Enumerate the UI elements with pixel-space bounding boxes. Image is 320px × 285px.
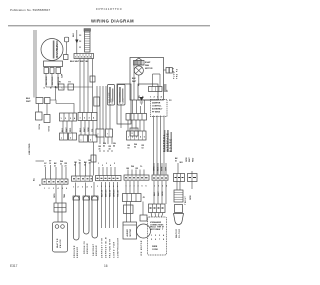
svg-text:1: 1 bbox=[98, 163, 99, 165]
svg-text:c: c bbox=[81, 140, 82, 142]
svg-text:FRZ P4: FRZ P4 bbox=[176, 68, 179, 79]
wires from K area down bbox=[99, 86, 101, 129]
svg-text:2: 2 bbox=[132, 137, 133, 139]
sensor tube 3 bbox=[92, 196, 98, 238]
wire from S7 bbox=[191, 182, 193, 190]
svg-text:MOTOR: MOTOR bbox=[145, 68, 153, 70]
wire with inline box left of S3 bbox=[93, 142, 95, 176]
overload protector parts bbox=[44, 68, 49, 74]
wire bbox=[38, 104, 40, 113]
svg-text:RED-16: RED-16 bbox=[110, 189, 112, 197]
wires below H bbox=[127, 120, 129, 131]
wire bbox=[45, 74, 47, 88]
svg-text:WATER: WATER bbox=[56, 238, 59, 248]
sensor tube 1 bbox=[74, 196, 80, 240]
wire bbox=[87, 59, 89, 113]
svg-text:F2: F2 bbox=[69, 82, 71, 84]
svg-text:DEFROST: DEFROST bbox=[93, 243, 95, 256]
inline connector on auger wires bbox=[124, 205, 134, 214]
svg-text:GRN: GRN bbox=[186, 157, 188, 162]
svg-text:DEFROST BI-M: DEFROST BI-M bbox=[106, 237, 108, 258]
svg-text:12: 12 bbox=[49, 163, 51, 165]
svg-text:COND FAN: COND FAN bbox=[113, 241, 116, 258]
svg-text:CAP: CAP bbox=[61, 73, 64, 78]
main board strip S3 bbox=[96, 176, 122, 181]
svg-text:CONTROL: CONTROL bbox=[152, 106, 162, 108]
compressor motor bbox=[41, 39, 63, 61]
svg-text:52: 52 bbox=[134, 147, 136, 149]
svg-text:EVAP: EVAP bbox=[145, 61, 151, 64]
svg-text:E317: E317 bbox=[10, 264, 18, 268]
small box bbox=[175, 205, 183, 213]
short line segment bbox=[36, 160, 45, 162]
water filter cup bbox=[174, 214, 184, 225]
connector S7 bbox=[188, 174, 198, 182]
svg-text:FRESH FD: FRESH FD bbox=[84, 241, 86, 254]
svg-text:2: 2 bbox=[78, 187, 79, 189]
svg-text:6: 6 bbox=[146, 186, 147, 188]
svg-text:FAN: FAN bbox=[145, 64, 150, 67]
svg-text:3: 3 bbox=[106, 163, 107, 165]
icemaker connector bbox=[149, 204, 166, 213]
short wires above strips bbox=[46, 137, 193, 179]
svg-text:WHT: WHT bbox=[158, 191, 160, 196]
svg-text:4: 4 bbox=[110, 164, 111, 167]
svg-text:TWIST: TWIST bbox=[185, 196, 187, 205]
svg-text:F1: F1 bbox=[59, 82, 61, 84]
auger motor bbox=[123, 222, 137, 239]
svg-text:SENSOR: SENSOR bbox=[96, 245, 98, 256]
evaporator fan motor bbox=[134, 61, 145, 66]
wire bbox=[51, 74, 53, 88]
svg-text:PLUG: PLUG bbox=[38, 124, 40, 130]
svg-text:16: 16 bbox=[104, 264, 108, 268]
svg-text:43: 43 bbox=[109, 148, 111, 151]
water valve bbox=[53, 222, 68, 252]
svg-text:g: g bbox=[132, 133, 133, 135]
svg-text:5: 5 bbox=[142, 186, 143, 188]
connector K2 bbox=[118, 85, 126, 106]
pin digits inner strip bbox=[150, 96, 163, 99]
svg-text:WHT: WHT bbox=[189, 157, 191, 162]
enclosure box around K2 bbox=[117, 84, 131, 124]
svg-text:53: 53 bbox=[142, 148, 144, 150]
wires below T2 bbox=[126, 202, 128, 223]
svg-text:5: 5 bbox=[144, 137, 145, 139]
wire: left power line (double) bbox=[33, 30, 35, 98]
svg-text:SENSOR: SENSOR bbox=[77, 246, 79, 258]
pin strip H bbox=[126, 114, 147, 121]
svg-text:5: 5 bbox=[91, 187, 92, 189]
pin numbers H2 bbox=[128, 136, 145, 139]
svg-text:ASSEMBLY: ASSEMBLY bbox=[152, 108, 163, 111]
svg-text:SENSOR: SENSOR bbox=[87, 243, 89, 254]
pin numbers under S1 bbox=[44, 187, 67, 190]
svg-text:51: 51 bbox=[128, 148, 130, 150]
svg-text:Publication No. 5995588847: Publication No. 5995588847 bbox=[10, 8, 51, 12]
svg-text:FREEZER: FREEZER bbox=[74, 245, 76, 258]
main board strip S1 bbox=[42, 179, 68, 184]
pin numbers J2 bbox=[75, 56, 92, 59]
ice maker box bbox=[148, 217, 167, 255]
svg-text:61: 61 bbox=[175, 161, 177, 163]
svg-text:4: 4 bbox=[58, 187, 59, 190]
wires from S3 down with labels bbox=[102, 182, 118, 228]
svg-text:MOTOR: MOTOR bbox=[130, 229, 132, 237]
wires from box F bottom bbox=[132, 100, 134, 114]
connector J2 horizontal bbox=[74, 54, 94, 59]
svg-text:DAMPER: DAMPER bbox=[152, 102, 161, 105]
svg-text:GRN: GRN bbox=[190, 195, 192, 200]
start device bbox=[64, 55, 69, 60]
svg-text:44: 44 bbox=[113, 145, 115, 148]
svg-text:3: 3 bbox=[82, 187, 83, 189]
svg-text:INTERFACE: INTERFACE bbox=[166, 133, 169, 152]
wires from S1 down bbox=[55, 185, 57, 203]
water valve connector bbox=[54, 203, 66, 212]
auger strip T2 bbox=[123, 194, 142, 202]
svg-text:42: 42 bbox=[103, 145, 105, 148]
svg-text:FILTER: FILTER bbox=[179, 229, 181, 238]
svg-text:WHT-16: WHT-16 bbox=[106, 189, 108, 197]
fuse wire with arrow bbox=[76, 30, 78, 54]
svg-text:WIRING DIAGRAM: WIRING DIAGRAM bbox=[91, 19, 134, 24]
wire inside box bbox=[138, 75, 140, 86]
wires from S2 to sensors bbox=[75, 183, 77, 197]
wire: left boxes to jog bbox=[50, 100, 56, 104]
main board strip S5 bbox=[152, 175, 168, 180]
header rule bbox=[8, 25, 210, 27]
svg-text:SW: SW bbox=[157, 229, 160, 231]
wires from S6 down bbox=[176, 182, 178, 191]
svg-text:RED: RED bbox=[193, 157, 195, 162]
wire: J2 down bbox=[79, 59, 81, 113]
wire cap to start device bbox=[65, 42, 67, 55]
svg-text:VALVE: VALVE bbox=[59, 239, 62, 248]
svg-text:3: 3 bbox=[53, 188, 54, 190]
run capacitor bbox=[65, 37, 69, 42]
wires from S5 to icemaker connector bbox=[153, 181, 155, 204]
inline fuse boxes on bus bbox=[59, 84, 65, 90]
svg-text:2: 2 bbox=[102, 165, 103, 167]
plug comb right of strip bbox=[164, 85, 167, 91]
svg-text:PLUG: PLUG bbox=[174, 71, 176, 79]
compressor relay box bbox=[44, 61, 63, 67]
wire color labels above board strips bbox=[44, 143, 183, 170]
connector K1 bbox=[108, 85, 115, 106]
pin numbers P2 bbox=[80, 117, 96, 120]
junction dot bbox=[55, 86, 57, 88]
svg-text:COMPRESSOR: COMPRESSOR bbox=[55, 41, 59, 59]
wire: jog 2 bbox=[56, 104, 74, 114]
svg-text:AUGER: AUGER bbox=[126, 229, 129, 237]
left mid components bbox=[36, 112, 43, 120]
svg-text:ORG: ORG bbox=[54, 193, 56, 198]
svg-text:1: 1 bbox=[128, 137, 129, 139]
hatched connector bbox=[174, 190, 183, 202]
svg-text:GRN-16: GRN-16 bbox=[114, 189, 116, 197]
svg-text:COMPRESSOR: COMPRESSOR bbox=[118, 238, 120, 258]
pin numbers under S2-S5 bbox=[73, 185, 167, 189]
wires from damper box bbox=[153, 116, 155, 175]
terminal box markers bbox=[61, 133, 133, 142]
mid pin strip P2 bbox=[78, 113, 97, 121]
pin numbers P1 bbox=[61, 117, 77, 120]
fresh food section box bbox=[130, 58, 164, 101]
svg-text:DEFROST HTR: DEFROST HTR bbox=[102, 238, 104, 258]
connector ladder J1 bbox=[85, 30, 91, 52]
svg-text:WATER: WATER bbox=[175, 229, 178, 238]
svg-text:BLK: BLK bbox=[73, 32, 75, 37]
wires from S4 to T2 bbox=[125, 181, 127, 194]
wire stubs strips to boxes bbox=[63, 121, 93, 136]
svg-text:ICE MOTOR: ICE MOTOR bbox=[141, 240, 143, 256]
svg-text:BLK-16: BLK-16 bbox=[102, 189, 104, 197]
ice dispenser motor bbox=[137, 224, 151, 238]
collar bbox=[140, 215, 147, 221]
damper control box bbox=[151, 100, 168, 117]
main board strip S2 bbox=[72, 176, 93, 181]
svg-text:5: 5 bbox=[114, 163, 115, 165]
wires to water valve bbox=[57, 212, 59, 222]
svg-text:1: 1 bbox=[73, 187, 74, 189]
inner strip bbox=[149, 87, 163, 92]
wire to ice motor bbox=[142, 202, 144, 216]
svg-text:e: e bbox=[98, 134, 99, 136]
svg-text:YEL-16: YEL-16 bbox=[118, 189, 120, 197]
svg-text:CONTROL: CONTROL bbox=[164, 134, 166, 152]
svg-text:1: 1 bbox=[44, 188, 45, 190]
relay terminal letters bbox=[44, 88, 64, 90]
fan of wires bbox=[151, 213, 163, 218]
svg-text:GRN: GRN bbox=[162, 191, 164, 196]
wires into inner strip bbox=[152, 74, 154, 87]
pin strip H2 bbox=[127, 131, 147, 140]
svg-text:1: 1 bbox=[97, 186, 98, 188]
svg-text:2: 2 bbox=[49, 188, 50, 190]
wire with inline connector bbox=[96, 86, 98, 129]
arrow head bbox=[75, 40, 78, 44]
wire to plug bbox=[164, 69, 167, 71]
wire bbox=[46, 104, 48, 115]
svg-text:6: 6 bbox=[66, 188, 67, 190]
svg-text:FF SENS: FF SENS bbox=[152, 112, 161, 114]
mid pin strip P1 bbox=[60, 113, 77, 121]
svg-text:CODE: CODE bbox=[152, 249, 158, 251]
wire bbox=[83, 59, 85, 113]
terminal boxes row bbox=[60, 133, 68, 140]
wire bbox=[57, 74, 59, 88]
chassis ground bbox=[140, 97, 144, 101]
inner connector sub-box bbox=[138, 84, 158, 100]
rotated block label bbox=[164, 130, 165, 152]
svg-text:BLK WHT RED YEL: BLK WHT RED YEL bbox=[70, 61, 89, 63]
svg-text:LINE CORD: LINE CORD bbox=[29, 143, 31, 155]
svg-text:BLK: BLK bbox=[26, 98, 31, 100]
svg-text:FPHI2187TF0: FPHI2187TF0 bbox=[96, 7, 122, 11]
svg-text:BLK: BLK bbox=[154, 191, 156, 196]
wire: right vertical with inline box bbox=[92, 59, 94, 113]
svg-text:4: 4 bbox=[87, 186, 88, 189]
sensor tube 2 bbox=[84, 196, 90, 234]
svg-text:3: 3 bbox=[136, 137, 137, 139]
svg-text:WHT: WHT bbox=[26, 101, 31, 103]
connector S6 bbox=[174, 174, 185, 182]
svg-text:FRZ FAN MTR: FRZ FAN MTR bbox=[109, 239, 112, 258]
svg-text:WIRE: WIRE bbox=[152, 246, 158, 248]
svg-text:PLUG: PLUG bbox=[47, 126, 49, 132]
main board strip S4 bbox=[124, 175, 149, 180]
svg-text:d: d bbox=[90, 140, 91, 142]
svg-text:BOARD: BOARD bbox=[170, 138, 173, 152]
plug symbol bbox=[166, 68, 169, 74]
left mid connector boxes bbox=[36, 98, 43, 104]
svg-text:TAN: TAN bbox=[63, 193, 66, 198]
wire: jog to strip P1 bbox=[46, 86, 92, 88]
